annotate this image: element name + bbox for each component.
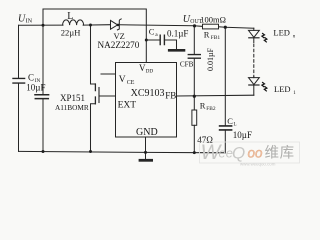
LED LEDn — [249, 30, 260, 37]
emission arrows LED1 — [262, 82, 267, 91]
resistor RFB1 100 mOhm — [203, 24, 219, 29]
wire inductor to diode — [83, 24, 110, 26]
label LEDn — [273, 28, 295, 40]
wire diode to output node — [119, 25, 202, 27]
ground for Ca — [169, 49, 184, 52]
svg-text:V: V — [119, 75, 126, 85]
node diode apex — [117, 24, 120, 27]
wire Ca to ground — [164, 40, 176, 49]
svg-text:XC9103: XC9103 — [131, 88, 165, 99]
label U_OUT — [183, 14, 203, 25]
wire output rail right section — [219, 27, 254, 28]
wire CL branch — [224, 27, 226, 125]
label U_IN — [18, 14, 33, 25]
svg-text:C: C — [28, 72, 34, 82]
node inductor/drain junction — [89, 24, 92, 27]
label RFB1 — [204, 30, 221, 42]
svg-text:22µH: 22µH — [61, 27, 81, 37]
transistor Q1 XP151 A11BOMR — [94, 84, 96, 91]
svg-text:www.weeqoo.com: www.weeqoo.com — [240, 161, 276, 166]
label RFB2 — [200, 100, 216, 112]
wire Ca branch from VDD line — [146, 39, 160, 41]
label Ca — [149, 26, 158, 38]
wire RFB2 branch — [193, 96, 195, 110]
svg-text:XP151: XP151 — [60, 93, 85, 103]
node FB junction — [193, 95, 196, 98]
inductor L1 22uH — [63, 20, 84, 25]
diode VZ NA2Z2270 — [111, 20, 118, 29]
node Ca tap — [145, 39, 148, 42]
capacitor CFB 0.01uF — [188, 55, 200, 59]
label V_CE — [119, 75, 135, 86]
svg-text:IN: IN — [26, 18, 33, 25]
svg-text:FB: FB — [165, 90, 176, 100]
svg-text:FB1: FB1 — [211, 35, 221, 41]
op-amp U1 XC9103 IC box — [116, 63, 177, 138]
svg-text:C: C — [227, 116, 233, 126]
svg-text:ee: ee — [219, 146, 233, 161]
LED string feed wire — [253, 28, 255, 30]
svg-text:A11BOMR: A11BOMR — [55, 103, 89, 112]
wire CE pin — [101, 73, 116, 75]
svg-text:L: L — [234, 122, 237, 127]
node ground rail GND pin — [144, 151, 147, 154]
svg-text:DD: DD — [146, 68, 154, 74]
label C_IN — [28, 72, 41, 83]
svg-text:C: C — [149, 26, 155, 36]
svg-text:0.01µF: 0.01µF — [206, 47, 215, 71]
svg-text:0.1µF: 0.1µF — [167, 28, 188, 38]
label C_L — [227, 116, 236, 128]
resistor RFB2 47 Ohm — [192, 110, 197, 125]
wire dashed LED string — [253, 44, 255, 77]
svg-text:FB2: FB2 — [206, 106, 216, 112]
svg-text:GND: GND — [136, 127, 158, 138]
svg-text:R: R — [200, 100, 206, 110]
label LED1 — [274, 84, 296, 96]
wire GND pin stem — [145, 137, 147, 159]
junction node dots — [42, 24, 227, 155]
capacitor input bypass — [35, 95, 49, 99]
wire CFB to FB node — [193, 58, 195, 96]
svg-text:100mΩ: 100mΩ — [200, 15, 226, 25]
node ground rail cap2 — [42, 150, 45, 153]
wire LED string return to FB node — [253, 85, 255, 95]
svg-text:R: R — [204, 30, 210, 40]
node input/top-rail junction — [42, 24, 45, 27]
capacitor C_IN 10uF — [13, 78, 25, 83]
emission arrows LEDn — [262, 33, 267, 42]
node CL tap — [224, 26, 227, 29]
node ground rail RFB2 — [193, 151, 196, 154]
svg-text:维库: 维库 — [265, 144, 295, 161]
svg-text:CE: CE — [127, 80, 135, 86]
wire FB line — [177, 94, 254, 97]
node U_OUT / CFB tap — [193, 24, 196, 27]
LED LED1 — [253, 77, 255, 78]
wire bottom ground rail — [19, 151, 226, 152]
svg-text:EXT: EXT — [118, 101, 137, 111]
ground main — [140, 159, 152, 162]
wire top rail from input node to VDD line — [43, 9, 146, 63]
svg-text:L: L — [67, 11, 73, 22]
wire gate to EXT pin — [99, 95, 116, 97]
svg-text:LED: LED — [273, 28, 290, 38]
wire MOSFET drain from inductor node — [91, 25, 96, 84]
svg-text:LED: LED — [274, 84, 291, 94]
capacitor CL 10uF — [220, 126, 232, 130]
capacitor Ca 0.1uF — [160, 35, 164, 44]
label V_DD — [139, 63, 153, 75]
watermark WeeQoo — [200, 141, 300, 166]
wire main input rail with U_IN terminal — [19, 24, 64, 26]
svg-text:Q: Q — [232, 144, 245, 163]
wire second input cap branch — [42, 25, 44, 94]
svg-text:NA2Z2270: NA2Z2270 — [98, 40, 140, 50]
wire CFB branch upper — [193, 26, 195, 54]
svg-text:10µF: 10µF — [26, 82, 45, 92]
svg-text:CFB: CFB — [180, 61, 194, 69]
node ground rail source — [89, 150, 92, 153]
wire C_IN branch — [18, 25, 20, 78]
svg-text:oo: oo — [248, 146, 264, 161]
svg-text:10µF: 10µF — [233, 130, 252, 140]
